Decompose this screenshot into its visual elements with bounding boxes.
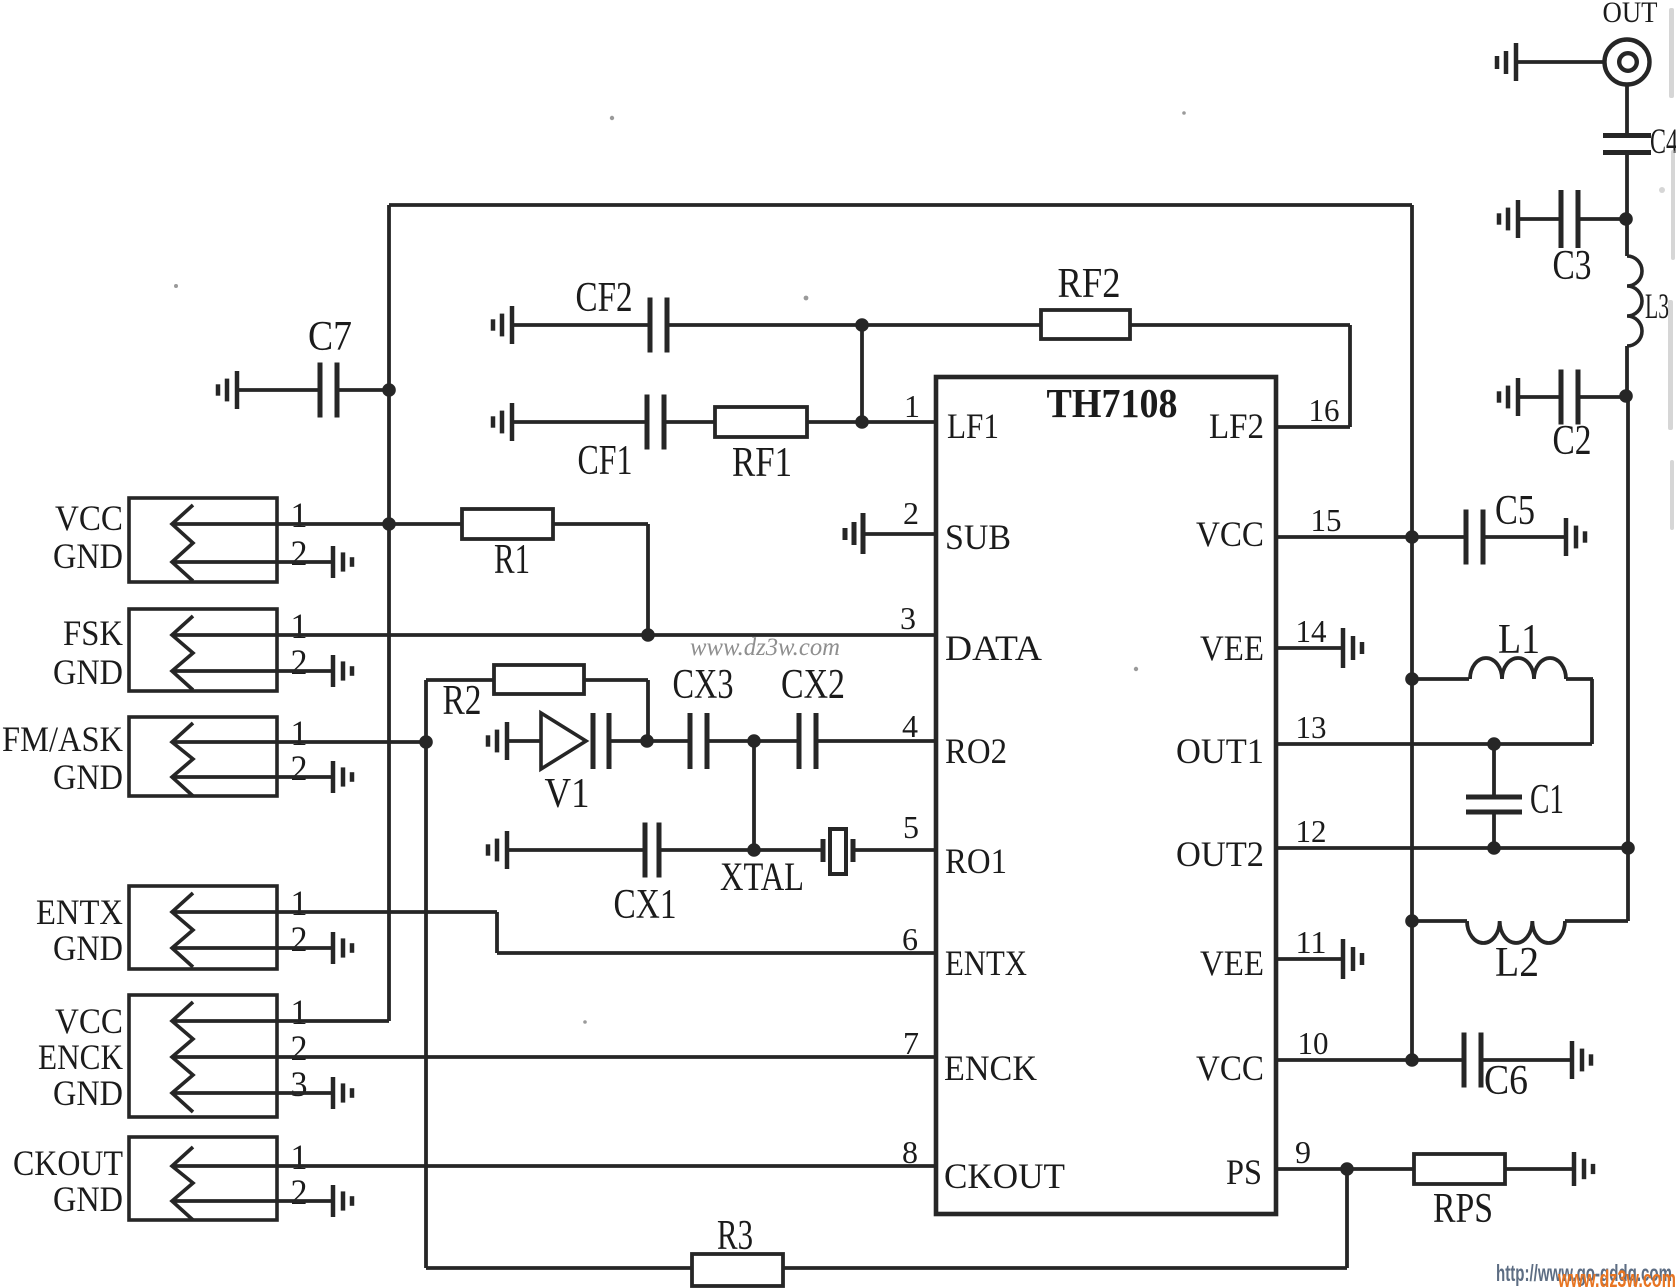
junction CF2/RF2 node (855, 318, 869, 332)
svg-text:OUT2: OUT2 (1176, 834, 1264, 874)
ground J5 pin3 (333, 1077, 352, 1109)
svg-text:VEE: VEE (1200, 943, 1264, 983)
op-amp U1 TH7108 IC body (936, 377, 1276, 1214)
svg-text:LF1: LF1 (947, 406, 999, 446)
svg-text:CX3: CX3 (673, 662, 734, 708)
ground C3 left (1499, 200, 1518, 238)
wire J4 pin2 to ground (172, 946, 333, 950)
wire R1 to corner (553, 522, 648, 526)
junction R1/DATA (641, 628, 655, 642)
wire J3 pin2 to ground (172, 775, 333, 779)
wire node to L3 (1625, 219, 1629, 256)
svg-text:C5: C5 (1495, 488, 1535, 534)
ground VEE pin 11 (1343, 939, 1362, 979)
wire VEE pin 14 to ground (1276, 646, 1343, 650)
svg-text:FSK: FSK (63, 613, 123, 653)
wire J5 pin1 to bus1 (172, 1019, 389, 1023)
wire C1 top (1492, 744, 1496, 795)
svg-text:R2: R2 (443, 678, 482, 724)
svg-text:PS: PS (1226, 1152, 1262, 1192)
svg-text:RO2: RO2 (945, 731, 1007, 771)
svg-text:CF1: CF1 (578, 438, 633, 484)
wire C4 to C3 node (1625, 155, 1629, 219)
wire bus to L1 (1412, 677, 1469, 681)
resistor R3 (692, 1254, 783, 1286)
ground CF1 left (493, 403, 512, 441)
junction PS node (1340, 1162, 1354, 1176)
svg-text:VCC: VCC (55, 498, 123, 538)
wire CF1 ground to plate (512, 420, 645, 424)
svg-text:L2: L2 (1495, 940, 1539, 986)
resistor RPS (1414, 1154, 1505, 1184)
wire PS node down (1345, 1169, 1349, 1268)
svg-text:www.dz3w.com: www.dz3w.com (690, 634, 840, 661)
resistor R1 (462, 509, 553, 539)
svg-text:2: 2 (291, 1172, 308, 1212)
svg-text:1: 1 (291, 883, 308, 923)
svg-text:DATA: DATA (945, 628, 1042, 668)
junction XTAL node (747, 843, 761, 857)
svg-text:FM/ASK: FM/ASK (2, 719, 123, 759)
ground J4 pin2 (333, 932, 352, 964)
wire node to RF2 (862, 323, 1041, 327)
wire C2 to node (1580, 395, 1626, 399)
svg-text:OUT: OUT (1603, 0, 1658, 29)
wire RF2 to LF2 corner (1130, 323, 1350, 327)
ground RPS right (1574, 1152, 1593, 1186)
wire J5 pin3 to ground (172, 1091, 333, 1095)
resistor RF1 (715, 407, 807, 437)
wire J6 pin1 CKOUT to IC pin 8 (172, 1164, 936, 1168)
wire bus2 to R2 (426, 678, 494, 682)
wire CF2 to node LF1-top (669, 323, 862, 327)
svg-text:14: 14 (1296, 613, 1327, 649)
svg-text:2: 2 (291, 1028, 308, 1068)
svg-text:2: 2 (903, 495, 919, 531)
connector J4 ENTX/GND (129, 886, 277, 969)
svg-text:GND: GND (53, 1179, 123, 1219)
capacitor CX3 (690, 713, 707, 769)
svg-text:VCC: VCC (55, 1001, 123, 1041)
svg-text:2: 2 (291, 642, 308, 682)
wire V1 to node A (611, 739, 647, 743)
wire L2 to corner (1565, 919, 1628, 923)
svg-text:GND: GND (53, 1073, 123, 1113)
wire output net down to OUT2 (1626, 396, 1630, 848)
wire J3 pin1 to bus2 (172, 740, 426, 744)
svg-text:1: 1 (904, 388, 920, 424)
svg-text:8: 8 (902, 1134, 918, 1170)
svg-text:RO1: RO1 (945, 841, 1007, 881)
svg-text:16: 16 (1309, 392, 1340, 428)
svg-text:C6: C6 (1484, 1058, 1528, 1104)
capacitor CF2 (650, 298, 667, 353)
wire C2 ground to plate (1518, 395, 1559, 399)
wire OUT1 pin 13 (1276, 742, 1592, 746)
junction L1/right-bus (1405, 672, 1419, 686)
wire C6 to ground (1483, 1058, 1572, 1062)
wire J6 pin2 to ground (172, 1199, 333, 1203)
svg-text:15: 15 (1311, 502, 1342, 538)
wire bus right vertical VCC rail (1410, 205, 1414, 1060)
wire C1 bottom (1492, 814, 1496, 848)
svg-text:ENTX: ENTX (36, 892, 123, 932)
ground OUT left (1497, 43, 1516, 81)
svg-text:2: 2 (291, 748, 308, 788)
ground C2 left (1499, 378, 1518, 416)
wire CF2 node down to LF1 node (860, 325, 864, 422)
wire ground to V1 (507, 739, 541, 743)
wire VCC pin 10 to C6 (1276, 1058, 1462, 1062)
junction C2 node (1619, 389, 1633, 403)
wire OUT ground to connector (1516, 60, 1604, 64)
svg-text:6: 6 (902, 921, 918, 957)
connector OUT coax (1605, 40, 1650, 85)
svg-text:C2: C2 (1553, 418, 1592, 464)
wire L3 to C2 node (1625, 346, 1629, 396)
ground C7 left (218, 371, 237, 409)
svg-text:ENCK: ENCK (944, 1048, 1037, 1088)
wire J4 pin1 ENTX (172, 910, 497, 914)
connector J5 VCC/ENCK/GND (129, 995, 277, 1117)
wire ground to CX1 (507, 848, 643, 852)
svg-text:1: 1 (291, 713, 308, 753)
svg-text:www.dz3w.com: www.dz3w.com (1557, 1266, 1676, 1288)
wire top VCC loop (bus1 top corner to right bus) (389, 203, 1412, 207)
svg-text:ENCK: ENCK (38, 1037, 123, 1077)
svg-text:7: 7 (903, 1025, 919, 1061)
resistor R2 (494, 665, 584, 694)
inductor L2 (1467, 921, 1565, 943)
svg-text:RF2: RF2 (1058, 261, 1121, 307)
junction pin10/right bus (1405, 1053, 1419, 1067)
capacitor C6 (1464, 1033, 1481, 1088)
inductor L1 (1470, 658, 1566, 679)
svg-text:C1: C1 (1530, 777, 1564, 823)
wire RF2 corner down to LF2 (1348, 325, 1352, 427)
wire CX2 to IC pin 4 RO2 (818, 739, 936, 743)
wire C7 to bus1 (339, 388, 389, 392)
capacitor CF1 (647, 395, 664, 450)
inductor L3 (1627, 256, 1642, 346)
wire L2 corner up to OUT2 (1626, 848, 1630, 921)
svg-text:C7: C7 (308, 314, 352, 360)
svg-text:ENTX: ENTX (945, 943, 1027, 983)
svg-text:2: 2 (291, 533, 308, 573)
svg-text:VEE: VEE (1200, 628, 1264, 668)
wire CX3 to node B (709, 739, 754, 743)
wire R1 corner down to DATA (646, 524, 650, 635)
wire C5 to ground (1485, 535, 1566, 539)
svg-text:12: 12 (1296, 813, 1327, 849)
svg-text:1: 1 (291, 495, 308, 535)
ground C6 right (1572, 1041, 1591, 1079)
scan artifact specks (174, 111, 1186, 1024)
svg-text:VCC: VCC (1196, 1048, 1264, 1088)
svg-text:3: 3 (900, 600, 916, 636)
wire bus1 to R1 (389, 522, 462, 526)
svg-text:V1: V1 (545, 771, 590, 817)
crystal XTAL (823, 829, 853, 874)
svg-text:L3: L3 (1645, 286, 1669, 326)
capacitor CX1 (645, 823, 659, 878)
svg-text:4: 4 (902, 708, 918, 744)
svg-text:VCC: VCC (1196, 514, 1264, 554)
wire VCC pin 15 to C5 (1276, 535, 1464, 539)
svg-text:CF2: CF2 (576, 275, 633, 321)
svg-text:SUB: SUB (945, 517, 1011, 557)
wire RF1 to LF1 pin 1 (807, 420, 936, 424)
svg-text:RPS: RPS (1433, 1186, 1493, 1232)
junction LF1 node (855, 415, 869, 429)
svg-text:GND: GND (53, 928, 123, 968)
wire bus to L2 (1412, 919, 1467, 923)
capacitor CX2 (799, 713, 816, 769)
svg-text:13: 13 (1296, 709, 1327, 745)
ground J6 pin2 (333, 1185, 352, 1217)
capacitor C1 (1466, 797, 1522, 812)
ground C5 right (1566, 518, 1585, 556)
wire node B down to XTAL node (752, 741, 756, 850)
ground J2 pin2 (333, 655, 352, 687)
svg-text:XTAL: XTAL (720, 854, 804, 899)
wire J1 pin1 to bus1 (172, 522, 389, 526)
wire bus1 vertical VCC rail (left) (387, 205, 391, 1021)
wire RPS to ground (1505, 1167, 1574, 1171)
ground VEE pin 14 (1343, 628, 1362, 668)
wire ENTX to IC pin 6 (497, 951, 936, 955)
wire R2 to corner (584, 678, 648, 682)
svg-text:R3: R3 (717, 1213, 753, 1259)
junction C7/bus1 (382, 383, 396, 397)
wire CF2 ground to plate (512, 323, 648, 327)
connector J6 CKOUT/GND (129, 1137, 277, 1220)
wire bottom run to R3 (783, 1266, 1347, 1270)
ground CF2 left (493, 306, 512, 344)
capacitor C2 (1561, 370, 1578, 425)
junction OUT1/C1 (1487, 737, 1501, 751)
svg-text:CX1: CX1 (614, 882, 677, 928)
connector J3 FM/ASK,GND (129, 717, 277, 796)
svg-text:1: 1 (291, 1137, 308, 1177)
junction node A (R2/V1/CX3) (640, 734, 654, 748)
capacitor C7 (320, 363, 337, 418)
svg-text:5: 5 (903, 809, 919, 845)
junction node B (CX3/CX2/XTAL) (747, 734, 761, 748)
svg-text:1: 1 (291, 992, 308, 1032)
svg-text:TH7108: TH7108 (1047, 380, 1178, 426)
wire node A to CX3 (647, 739, 688, 743)
connector J2 FSK/GND (129, 609, 277, 691)
wire CF1 to RF1 (666, 420, 715, 424)
capacitor C4 (1603, 136, 1651, 153)
wire SUB ground to IC pin 2 (863, 532, 936, 536)
wire J5 pin2 ENCK to IC pin 7 (172, 1055, 936, 1059)
junction C3 node (1619, 212, 1633, 226)
svg-text:CKOUT: CKOUT (13, 1143, 123, 1183)
resistor RF2 (1041, 310, 1130, 339)
wire VEE pin 11 to ground (1276, 957, 1343, 961)
capacitor C3 (1561, 190, 1578, 248)
svg-text:GND: GND (53, 536, 123, 576)
wire L1 to corner (1566, 677, 1593, 681)
scan artifact right edge smudges (1659, 8, 1675, 530)
connector J1 VCC/GND (129, 498, 277, 582)
wire OUT connector down to C4 (1625, 83, 1629, 133)
wire node B to CX2 (754, 739, 797, 743)
junction pin15/right bus (1405, 530, 1419, 544)
svg-text:10: 10 (1298, 1025, 1329, 1061)
svg-text:C3: C3 (1553, 243, 1592, 289)
junction J3-pin1/bus2 (419, 735, 433, 749)
svg-text:CX2: CX2 (781, 662, 845, 708)
wire OUT2 pin 12 (1276, 846, 1628, 850)
svg-text:9: 9 (1295, 1134, 1311, 1170)
junction OUT2/C1 (1487, 841, 1501, 855)
ground SUB pin 2 (845, 513, 863, 554)
wire PS pin 9 to RPS (1276, 1167, 1414, 1171)
wire node to XTAL (754, 848, 823, 852)
ground J1 pin2 (333, 546, 352, 578)
svg-text:1: 1 (291, 606, 308, 646)
wire DATA net J2 pin1 to IC pin 3 (172, 633, 936, 637)
wire C7 ground to plate (237, 388, 318, 392)
wire CX1 to XTAL node (661, 848, 754, 852)
ground CX1 left (488, 831, 507, 869)
wire bus2 vertical (R2 to R3) (424, 680, 428, 1268)
wire C3 to node (1580, 217, 1626, 221)
wire J1 pin2 to ground (172, 560, 333, 564)
wire L1 corner down to OUT1 (1590, 679, 1594, 744)
wire R3 to bus2 (426, 1266, 692, 1270)
svg-text:3: 3 (291, 1064, 308, 1104)
wire ENTX jog down (495, 912, 499, 953)
wire J2 pin2 to ground (172, 669, 333, 673)
svg-text:CKOUT: CKOUT (944, 1156, 1065, 1196)
svg-text:RF1: RF1 (732, 440, 792, 486)
wire R2 corner down to varactor node (646, 680, 650, 741)
wire C3 ground to plate (1518, 217, 1559, 221)
svg-text:GND: GND (53, 757, 123, 797)
junction J1-pin1/bus1 (382, 517, 396, 531)
svg-text:2: 2 (291, 919, 308, 959)
svg-text:R1: R1 (494, 537, 530, 583)
junction L2/right-bus (1405, 914, 1419, 928)
varactor diode V1 (541, 713, 586, 769)
svg-text:LF2: LF2 (1209, 406, 1264, 446)
svg-text:OUT1: OUT1 (1176, 731, 1264, 771)
ground V1 left (488, 722, 507, 760)
wire LF2 pin 16 stub (1276, 425, 1350, 429)
capacitor C5 (1466, 510, 1483, 565)
junction OUT2/output net (1621, 841, 1635, 855)
wire XTAL to IC pin 5 RO1 (853, 848, 936, 852)
svg-text:11: 11 (1296, 924, 1327, 960)
svg-text:GND: GND (53, 652, 123, 692)
ground J3 pin2 (333, 761, 352, 793)
svg-text:L1: L1 (1498, 617, 1540, 663)
